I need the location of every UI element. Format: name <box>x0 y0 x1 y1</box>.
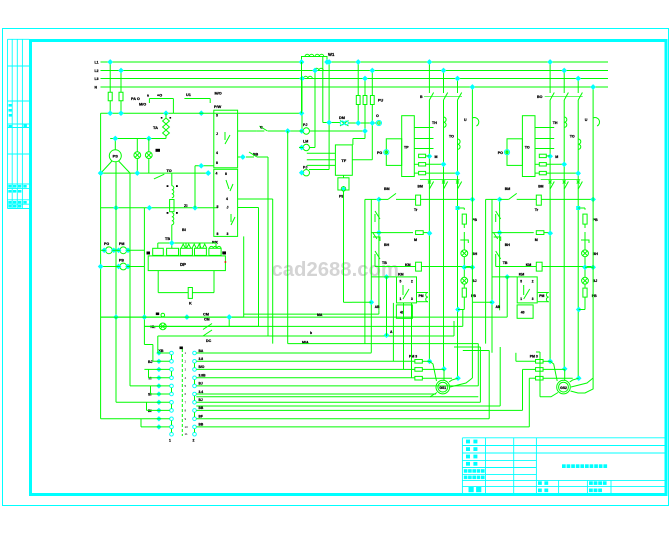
wire TB down <box>171 225 173 243</box>
bell symbol A <box>472 118 478 126</box>
PW lower contact1 <box>226 180 233 191</box>
terminal row 5 <box>170 384 174 388</box>
svg-text:J: J <box>227 206 229 210</box>
PB tail down <box>343 191 345 302</box>
svg-text:DC: DC <box>206 339 212 343</box>
CT coil on L3 <box>304 76 313 78</box>
scale cell <box>538 481 542 485</box>
svg-text:BB: BB <box>199 406 204 410</box>
wire U1 link <box>184 98 210 100</box>
svg-text:GS2: GS2 <box>560 386 567 390</box>
wire sec1 to right <box>228 317 230 326</box>
terminal row 2 <box>170 360 174 364</box>
label Bn strip <box>180 347 183 350</box>
wire y=343.6 <box>288 343 479 345</box>
feeder row9 <box>101 418 170 420</box>
svg-text:1: 1 <box>185 351 187 355</box>
power line N <box>101 86 609 88</box>
node TA top <box>163 110 169 116</box>
long wire row 2 <box>196 360 415 362</box>
svg-text:O: O <box>376 114 379 118</box>
title cell text row5 <box>464 469 468 473</box>
terminal row 8 <box>170 409 174 413</box>
motor section A <box>352 59 478 382</box>
riser row4 <box>411 303 413 378</box>
bus y=317.1 <box>101 316 244 318</box>
svg-text:8: 8 <box>185 408 187 412</box>
power line L1 <box>101 61 302 63</box>
svg-text:5: 5 <box>217 205 219 209</box>
svg-text:N: N <box>95 85 98 89</box>
wire PS top <box>114 139 116 150</box>
svg-text:8: 8 <box>216 161 218 165</box>
meter P2 <box>120 247 127 254</box>
dot TA a <box>161 117 163 119</box>
long wire row 10 <box>196 426 529 428</box>
svg-text:DP: DP <box>180 262 186 267</box>
svg-text:PO: PO <box>104 242 109 246</box>
switch TO sec1 <box>154 174 164 179</box>
TF tail <box>343 186 345 190</box>
meter P3 <box>120 263 127 270</box>
long wire row 3 <box>196 368 403 370</box>
title cell text row2 <box>466 447 470 451</box>
svg-text:BJ: BJ <box>199 398 203 402</box>
riser row2 <box>392 303 394 361</box>
svg-text:PM: PM <box>119 242 124 246</box>
svg-text:BA: BA <box>199 349 204 353</box>
motor section B <box>473 59 599 382</box>
svg-text:PJ: PJ <box>303 123 307 127</box>
label K left <box>147 252 151 255</box>
svg-text:GS1: GS1 <box>439 386 446 390</box>
svg-text:HL: HL <box>151 325 157 329</box>
W1 link jog on L1 <box>302 57 328 63</box>
GS2 bottom wires <box>540 393 558 397</box>
svg-text:TO: TO <box>167 169 172 173</box>
transformer TA <box>163 118 166 136</box>
svg-text:TF: TF <box>341 158 346 163</box>
wire PW k <box>195 165 214 167</box>
CT coil W1a <box>305 54 314 56</box>
lamp HL1 <box>134 152 141 159</box>
fuse FU2b <box>363 96 367 105</box>
bus y=317 long <box>101 316 508 318</box>
svg-text:P/W: P/W <box>214 105 222 109</box>
svg-text:PJ: PJ <box>303 165 307 169</box>
terminal row 4 <box>170 376 174 380</box>
wire y=314 <box>244 313 379 315</box>
long wire row 9 <box>196 418 489 420</box>
ammeter PJ1 <box>303 128 309 134</box>
bus section1 y=173 <box>101 172 208 174</box>
title block <box>462 437 665 439</box>
DP diode arrows <box>181 244 185 248</box>
fuse FU2a <box>356 96 360 105</box>
DM cross <box>340 121 349 127</box>
svg-text:a: a <box>147 94 149 98</box>
svg-text:BJ: BJ <box>148 360 153 364</box>
long wire row 1 <box>196 352 371 354</box>
N rail right B <box>592 87 594 378</box>
label right <box>223 252 227 255</box>
node L2 tap1 <box>118 68 124 74</box>
feeder row1 drop <box>157 336 159 353</box>
svg-text:CM: CM <box>204 318 210 322</box>
dot TA b <box>170 117 172 119</box>
lamp HL3 <box>159 323 166 330</box>
svg-text:BF: BF <box>199 415 203 419</box>
svg-text:3: 3 <box>185 367 187 371</box>
riser rows 5/7/9 <box>477 344 479 386</box>
label lamps <box>156 149 161 152</box>
title cell text row4 <box>466 462 470 466</box>
svg-text:8: 8 <box>225 172 227 176</box>
svg-text:2: 2 <box>193 439 195 443</box>
wire meters row1 <box>101 249 106 251</box>
wire bus113 to DM column <box>173 112 301 114</box>
svg-text:L1: L1 <box>95 60 99 64</box>
relay box PW <box>214 110 238 168</box>
svg-text:U: U <box>585 118 588 122</box>
feeder row6 <box>151 393 170 395</box>
svg-text:3: 3 <box>216 114 218 118</box>
svg-text:CM: CM <box>203 313 209 317</box>
wire DP down right <box>213 271 215 293</box>
svg-text:6: 6 <box>185 392 187 396</box>
wire N to GS2 <box>571 378 593 387</box>
svg-text:B: B <box>420 95 423 99</box>
svg-text:4: 4 <box>216 172 218 176</box>
wire HL1 top <box>136 139 138 152</box>
svg-text:C: C <box>260 126 263 130</box>
GS2 left feeders <box>522 369 524 410</box>
DP cell 3 <box>180 248 192 255</box>
DP cell 4 <box>195 248 207 255</box>
inner thick border frame <box>31 41 667 495</box>
wire K left <box>158 292 188 294</box>
label Bn <box>156 313 159 316</box>
wire DM to PD <box>349 122 377 124</box>
node L1 tap1 <box>107 59 113 65</box>
section1 phase tap QF1 <box>109 62 111 92</box>
svg-text:M/O: M/O <box>215 92 222 96</box>
svg-text:TA: TA <box>153 125 158 130</box>
feeder row7 <box>116 401 170 403</box>
long wire row 8 <box>196 409 522 411</box>
terminal PD <box>376 120 381 125</box>
feeder row8 <box>147 409 170 411</box>
switch DC <box>203 324 212 330</box>
GS2 right side wire <box>571 378 594 393</box>
svg-text:U: U <box>464 118 467 122</box>
terminal row 7 <box>170 401 174 405</box>
fuse FU2c <box>370 96 374 105</box>
fuse FU1b <box>119 92 123 101</box>
terminal PB <box>341 187 345 191</box>
svg-text:TB: TB <box>165 237 170 241</box>
ladder A KM drop <box>386 277 388 336</box>
wire FU1a down <box>109 101 111 114</box>
ammeter PJ2 <box>303 144 309 150</box>
long wire row 5 <box>196 385 478 387</box>
bus section1 top y=113 <box>101 112 174 114</box>
svg-text:BJ: BJ <box>199 382 203 386</box>
title cell text row6 <box>464 476 468 480</box>
svg-text:1: 1 <box>169 439 171 443</box>
bell symbol B <box>593 118 599 126</box>
TB core resistor <box>170 200 174 212</box>
title cell shending <box>469 487 474 492</box>
long wire row 4 <box>196 377 411 379</box>
CT secondary taps <box>301 79 303 132</box>
bus section1 y=138.5 <box>110 138 166 140</box>
svg-text:DM: DM <box>339 116 345 120</box>
elbow row4 <box>148 369 150 377</box>
terminal chain segments left <box>171 355 173 360</box>
svg-text:MA: MA <box>317 313 323 317</box>
TF box <box>335 145 352 175</box>
riser row3 <box>403 303 405 370</box>
svg-text:PU: PU <box>378 99 384 103</box>
contact BB <box>238 156 243 158</box>
long wire row 7 <box>196 401 480 403</box>
svg-text:PA O: PA O <box>131 97 140 101</box>
fuse FU1a <box>108 92 112 101</box>
wires TF left stubs <box>307 152 336 154</box>
CT coil W1b <box>315 54 324 56</box>
node jog left <box>299 59 305 65</box>
feeder row3 <box>144 368 169 370</box>
left signature table <box>7 39 9 208</box>
bus section1 y=207.8 <box>101 207 218 209</box>
transformer TB secondary <box>172 213 174 225</box>
long wire row 6 <box>196 393 436 395</box>
power line L3 <box>101 78 609 80</box>
aux risers B <box>499 347 501 406</box>
terminal row 9 <box>170 417 174 421</box>
title cell text row1 <box>466 440 470 444</box>
ladder B KM drop <box>506 277 508 317</box>
transformer TB primary <box>171 173 173 186</box>
svg-text:+O: +O <box>157 94 162 98</box>
contact C <box>238 130 257 132</box>
wire +O link <box>149 98 173 100</box>
rail 130 down <box>129 250 131 386</box>
DP cell 2 <box>167 248 179 255</box>
drawing title <box>562 464 566 468</box>
table text marks <box>9 104 12 107</box>
PW inner contact <box>225 132 230 144</box>
meter P1 <box>106 247 113 254</box>
wire HL1 bottom <box>136 159 138 174</box>
relay box PW lower <box>214 169 238 236</box>
svg-text:K: K <box>189 302 192 306</box>
terminal row 6 <box>170 392 174 396</box>
node jog right <box>324 59 330 65</box>
svg-text:J: J <box>216 132 218 136</box>
svg-text:b: b <box>310 331 312 335</box>
svg-text:11: 11 <box>185 432 188 436</box>
lamp HL2 <box>145 152 152 159</box>
red dot <box>225 261 227 263</box>
svg-text:10: 10 <box>185 425 189 429</box>
svg-text:L2: L2 <box>95 69 99 73</box>
terminal chain segments right <box>194 363 196 368</box>
wire HL2 bottom <box>148 159 150 174</box>
svg-text:9: 9 <box>185 417 187 421</box>
rail 144 to feeder2 <box>143 326 145 344</box>
stage cell <box>589 481 593 485</box>
wire y=326 long <box>144 325 462 327</box>
wire PS leg left <box>101 161 112 173</box>
svg-text:4: 4 <box>226 197 228 201</box>
svg-text:PB: PB <box>119 259 124 263</box>
svg-text:LM: LM <box>303 140 308 144</box>
feeder row5 <box>130 385 170 387</box>
svg-text:7: 7 <box>185 400 187 404</box>
TF lower box <box>338 178 349 190</box>
rail x=144.4 <box>143 208 145 327</box>
svg-text:TO: TO <box>525 146 530 150</box>
CT coil on L2 <box>315 68 324 70</box>
svg-text:4: 4 <box>185 376 187 380</box>
wire HL2 top <box>148 139 150 152</box>
wire PS leg right <box>119 161 130 173</box>
relay K coil <box>188 288 192 299</box>
svg-text:2: 2 <box>185 359 187 363</box>
sheet cell <box>538 489 542 493</box>
terminal row 1 <box>170 351 174 355</box>
DP cell 5 <box>209 248 221 255</box>
rectifier DP box <box>148 256 225 271</box>
svg-text:U1: U1 <box>186 93 191 97</box>
wire K right <box>192 292 214 294</box>
PW exit wires <box>238 198 273 200</box>
svg-text:3.8: 3.8 <box>199 357 204 361</box>
svg-text:3.4: 3.4 <box>199 390 204 394</box>
label 10 <box>222 251 226 254</box>
svg-text:BO: BO <box>537 95 543 99</box>
N rail right A <box>471 87 473 378</box>
wires TB to DP <box>158 242 216 244</box>
svg-text:5: 5 <box>185 384 187 388</box>
svg-text:M/O: M/O <box>139 103 146 107</box>
terminal row 3 <box>170 368 174 372</box>
rail x=116 <box>115 162 117 317</box>
wire meters row2 <box>101 266 120 268</box>
wire FU1b down <box>120 101 122 114</box>
svg-text:BI: BI <box>182 228 186 232</box>
motor GS2 <box>557 380 571 394</box>
svg-text:L3: L3 <box>95 77 99 81</box>
bus y=326.4 <box>144 325 258 327</box>
power line L2 <box>101 70 609 72</box>
PW lower contact2 <box>231 214 235 225</box>
voltmeter PS <box>109 150 121 162</box>
terminal row 11 <box>170 432 174 436</box>
phase b elbow to TF <box>364 131 366 139</box>
wire DP down left <box>157 271 159 293</box>
svg-text:cad2688.com: cad2688.com <box>272 259 399 281</box>
svg-text:BB: BB <box>199 423 204 427</box>
DP cell5 coil bumps <box>210 246 221 248</box>
svg-text:4: 4 <box>216 151 218 155</box>
ammeter PJ3 <box>303 170 309 176</box>
rail x=130 <box>129 173 131 250</box>
DP cell 1 <box>153 248 164 255</box>
left rail section1 <box>100 113 102 419</box>
svg-text:W1: W1 <box>328 52 335 57</box>
svg-text:PS: PS <box>113 154 119 159</box>
terminal strip XB dashed spine <box>181 349 183 436</box>
svg-text:3.8B: 3.8B <box>199 374 207 378</box>
motor GS1 <box>436 380 450 394</box>
terminal B on bus <box>161 313 165 317</box>
wire y=336 <box>158 335 454 337</box>
svg-text:8: 8 <box>217 232 219 236</box>
svg-text:TP: TP <box>404 146 409 150</box>
title cell text row3 <box>466 455 470 459</box>
fuse group FU2 <box>357 62 359 96</box>
terminal row 10 <box>170 425 174 429</box>
feeder row10 <box>141 426 170 428</box>
node PW top <box>198 110 204 116</box>
svg-text:3: 3 <box>227 232 229 236</box>
GS1 bottom wire <box>196 393 437 397</box>
svg-text:B/O: B/O <box>199 365 205 369</box>
svg-text:A: A <box>390 330 393 334</box>
TF right stub <box>352 159 372 161</box>
wire N to GS1 <box>450 378 472 387</box>
number cell <box>589 489 593 493</box>
ammeter wires <box>310 130 366 132</box>
